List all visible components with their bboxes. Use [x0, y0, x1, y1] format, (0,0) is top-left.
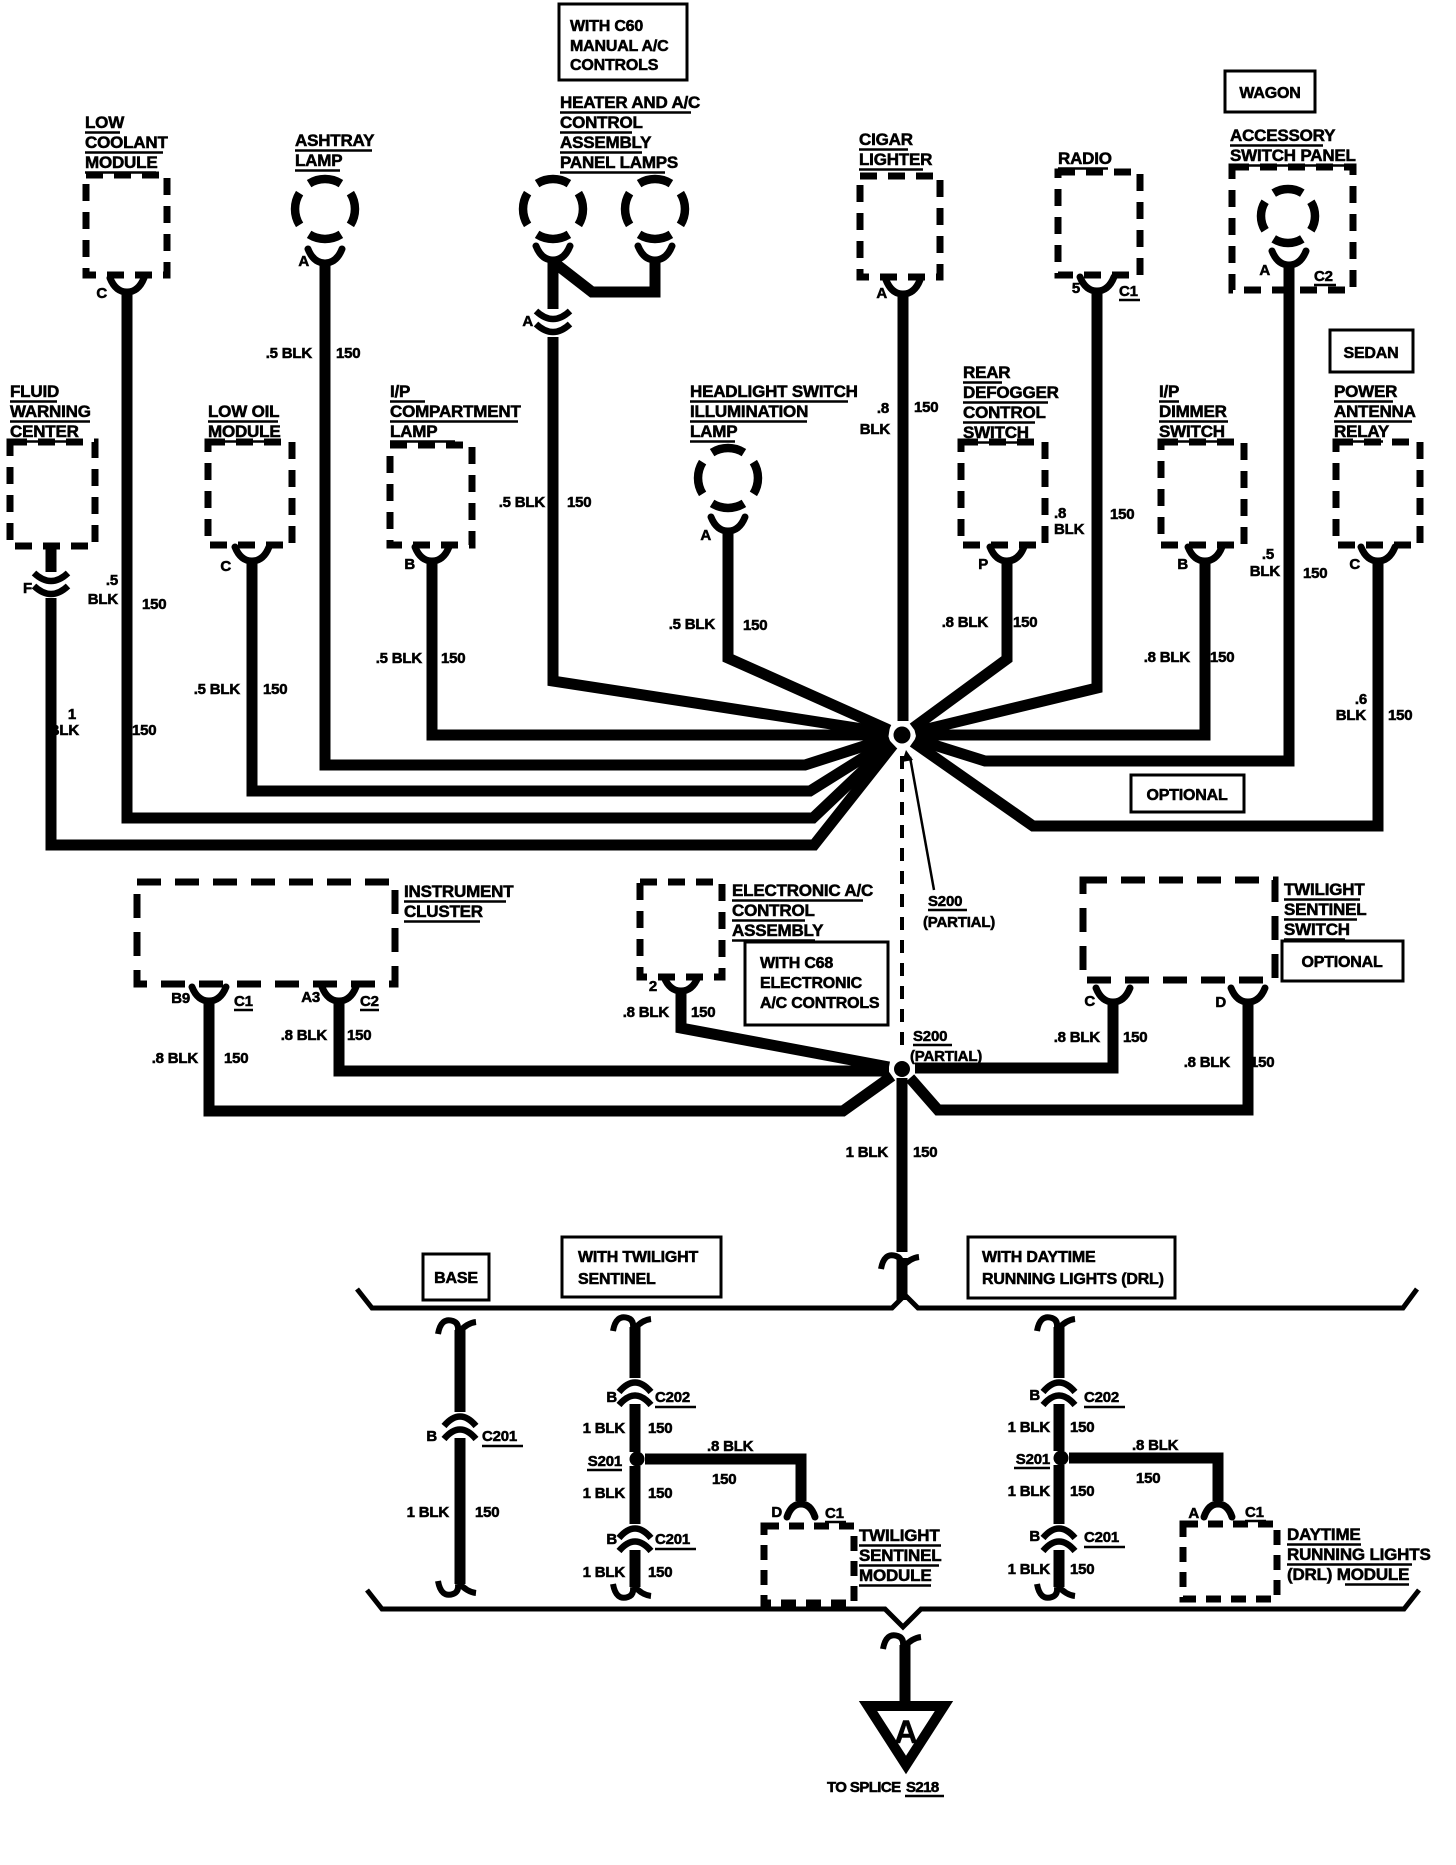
svg-text:150: 150 [1013, 614, 1037, 631]
component HEADLIGHT SWITCH ILLUMINATION LAMP [690, 382, 858, 508]
svg-text:RUNNING LIGHTS: RUNNING LIGHTS [1287, 1545, 1431, 1564]
component ASHTRAY LAMP [295, 131, 375, 239]
svg-text:CONTROLS: CONTROLS [570, 57, 659, 74]
svg-text:LAMP: LAMP [390, 422, 437, 441]
component INSTRUMENT CLUSTER [137, 882, 514, 984]
svg-text:RELAY: RELAY [1334, 422, 1390, 441]
svg-text:150: 150 [142, 596, 166, 613]
svg-text:CONTROL: CONTROL [560, 113, 643, 132]
label .5 BLK 150 (ashtray wire) [266, 345, 361, 362]
svg-text:A/C CONTROLS: A/C CONTROLS [760, 995, 880, 1012]
label .8 BLK 150 (dimmer wire) [1144, 649, 1235, 666]
svg-text:150: 150 [691, 1004, 715, 1021]
label .5 BLK 150 (headlight sw illum wire) [669, 616, 768, 634]
svg-text:CENTER: CENTER [10, 422, 79, 441]
component CIGAR LIGHTER [859, 130, 940, 277]
label .5 BLK 150 (accessory wire) [1250, 546, 1328, 582]
pin A of ASHTRAY LAMP [298, 249, 342, 270]
label .8 BLK 150 (sentinel D wire) [1184, 1054, 1275, 1071]
svg-text:HEADLIGHT SWITCH: HEADLIGHT SWITCH [690, 382, 858, 401]
wire BASE branch (1 BLK 150) [438, 1320, 476, 1595]
svg-text:DIMMER: DIMMER [1159, 402, 1227, 421]
svg-text:BASE: BASE [434, 1270, 478, 1287]
component FLUID WARNING CENTER [10, 382, 95, 546]
dashed wire S200 to S200 (partial splice) [900, 756, 904, 1053]
label .8 BLK 150 (electronic a/c wire) [623, 1004, 716, 1021]
label 1 BLK 150 [583, 1485, 673, 1502]
wire ELECTRONIC A/C to S200 lower (.8 BLK 150) [681, 990, 889, 1067]
wire S201 to DRL MODULE (.8 BLK 150) [1069, 1458, 1218, 1501]
wire POWER ANTENNA RELAY to S200 (.6 BLK 150) [913, 560, 1378, 826]
svg-text:ELECTRONIC A/C: ELECTRONIC A/C [732, 881, 873, 900]
splice S201 (sentinel branch) [587, 1452, 645, 1471]
svg-text:REAR: REAR [963, 363, 1010, 382]
component I/P DIMMER SWITCH [1159, 382, 1244, 545]
in-line connector C201 (sentinel branch) pin B [606, 1529, 696, 1552]
note box SEDAN [1330, 330, 1413, 372]
component POWER ANTENNA RELAY (SEDAN) [1334, 382, 1420, 545]
in-line connector F (fluid warning) [23, 573, 68, 597]
svg-text:DEFOGGER: DEFOGGER [963, 383, 1059, 402]
svg-text:150: 150 [263, 681, 287, 698]
label .8 BLK 150 (A3 wire) [281, 1027, 372, 1044]
svg-text:C201: C201 [655, 1531, 690, 1548]
label .8 BLK 150 (radio wire) [1054, 505, 1134, 538]
note box WAGON [1225, 71, 1315, 112]
pin A of CIGAR LIGHTER [876, 280, 920, 302]
svg-text:CLUSTER: CLUSTER [404, 902, 483, 921]
label .5 BLK 150 (heater lamps wire) [499, 494, 592, 511]
wire A3 to S200 lower (.8 BLK 150) [339, 1000, 889, 1071]
svg-text:1 BLK: 1 BLK [1008, 1561, 1051, 1578]
pin C of LOW COOLANT MODULE [96, 278, 144, 302]
svg-text:.5 BLK: .5 BLK [376, 650, 423, 667]
svg-text:S201: S201 [1016, 1451, 1050, 1468]
component ELECTRONIC A/C CONTROL ASSEMBLY [640, 881, 873, 977]
svg-text:150: 150 [1070, 1419, 1094, 1436]
svg-text:LOW OIL: LOW OIL [208, 402, 279, 421]
svg-text:I/P: I/P [390, 382, 410, 401]
svg-text:DAYTIME: DAYTIME [1287, 1525, 1361, 1544]
component REAR DEFOGGER CONTROL SWITCH [961, 363, 1059, 545]
svg-text:COOLANT: COOLANT [85, 133, 168, 152]
svg-text:150: 150 [1210, 649, 1234, 666]
svg-text:2: 2 [649, 978, 657, 995]
pin 5 / connector C1 of RADIO [1072, 277, 1140, 300]
svg-text:150: 150 [1250, 1054, 1274, 1071]
wire WITH TWILIGHT SENTINEL branch (1 BLK 150) [613, 1317, 651, 1598]
wire I/P DIMMER SWITCH to S200 (.8 BLK 150) [916, 560, 1205, 735]
label .5 BLK 150 (low oil wire) [194, 681, 288, 698]
ground symbol A / TO SPLICE S218 [868, 1706, 944, 1765]
wire CIGAR LIGHTER to S200 (.8 BLK 150) [898, 293, 909, 721]
label S200 (PARTIAL) lower [910, 1028, 982, 1065]
svg-text:150: 150 [347, 1027, 371, 1044]
bracket (top) [357, 1289, 1417, 1308]
svg-text:OPTIONAL: OPTIONAL [1301, 954, 1382, 971]
svg-text:SWITCH: SWITCH [1159, 422, 1225, 441]
bracket (bottom) [367, 1590, 1419, 1627]
wire heater panel lamps to S200 (.5 BLK 150) [553, 337, 889, 733]
svg-text:B: B [404, 556, 415, 573]
svg-text:1 BLK: 1 BLK [583, 1420, 626, 1437]
pin B of I/P DIMMER SWITCH [1177, 547, 1222, 573]
svg-text:B: B [426, 1428, 437, 1445]
svg-text:150: 150 [441, 650, 465, 667]
svg-text:C: C [220, 558, 231, 575]
svg-text:WARNING: WARNING [10, 402, 91, 421]
svg-text:OPTIONAL: OPTIONAL [1146, 787, 1227, 804]
pin D of TWILIGHT SENTINEL SWITCH [1215, 988, 1265, 1011]
svg-text:I/P: I/P [1159, 382, 1179, 401]
svg-text:.8 BLK: .8 BLK [1184, 1054, 1231, 1071]
svg-text:150: 150 [1388, 707, 1412, 724]
svg-text:WITH TWILIGHT: WITH TWILIGHT [578, 1249, 698, 1266]
svg-text:A: A [700, 527, 711, 544]
wire HEADLIGHT SWITCH ILLUMINATION LAMP to S200 (.5 BLK 150) [728, 530, 889, 730]
svg-text:SENTINEL: SENTINEL [859, 1546, 941, 1565]
label .8 BLK 150 (drl module wire) [1132, 1437, 1179, 1487]
label .8 BLK 150 (sentinel module wire) [707, 1438, 754, 1488]
svg-text:SWITCH: SWITCH [1284, 920, 1350, 939]
splice S200 lower node [894, 1061, 910, 1077]
wire LOW OIL MODULE to S200 (.5 BLK 150) [252, 560, 890, 791]
label 1 BLK 150 (base branch) [407, 1504, 500, 1521]
svg-text:WITH C68: WITH C68 [760, 955, 833, 972]
svg-text:RADIO: RADIO [1058, 149, 1112, 168]
svg-text:WAGON: WAGON [1239, 85, 1300, 102]
label TO SPLICE S218 [827, 1779, 944, 1796]
svg-text:150: 150 [132, 722, 156, 739]
wire REAR DEFOGGER CONTROL SWITCH to S200 (.8 BLK 150) [913, 560, 1007, 728]
svg-text:.5 BLK: .5 BLK [266, 345, 313, 362]
svg-text:C: C [1349, 556, 1360, 573]
svg-text:C: C [1084, 993, 1095, 1010]
pin C of POWER ANTENNA RELAY [1349, 547, 1395, 573]
in-line connector C202 (drl branch) pin B [1029, 1383, 1125, 1408]
component RADIO [1058, 149, 1140, 275]
svg-text:C1: C1 [825, 1505, 844, 1522]
svg-text:MODULE: MODULE [859, 1566, 931, 1585]
pin C of TWILIGHT SENTINEL SWITCH [1084, 988, 1130, 1010]
svg-text:INSTRUMENT: INSTRUMENT [404, 882, 514, 901]
wire FLUID WARNING CENTER to S200 (1 BLK 150) [51, 598, 893, 845]
svg-text:A: A [876, 285, 887, 302]
svg-text:C1: C1 [234, 993, 253, 1010]
svg-text:1 BLK: 1 BLK [1008, 1483, 1051, 1500]
svg-text:COMPARTMENT: COMPARTMENT [390, 402, 521, 421]
label 1 BLK 150 [583, 1420, 673, 1437]
wire S200 lower down to bracket (1 BLK 150) [881, 1078, 919, 1300]
note box WITH C68 ELECTRONIC A/C CONTROLS [745, 942, 888, 1025]
note box OPTIONAL (upper) [1131, 775, 1244, 812]
svg-text:BLK: BLK [49, 722, 80, 739]
svg-text:1 BLK: 1 BLK [846, 1144, 889, 1161]
svg-text:150: 150 [712, 1471, 736, 1488]
svg-text:B: B [606, 1389, 617, 1406]
component DAYTIME RUNNING LIGHTS (DRL) MODULE [1183, 1504, 1431, 1599]
svg-text:1 BLK: 1 BLK [583, 1564, 626, 1581]
svg-text:WITH DAYTIME: WITH DAYTIME [982, 1249, 1096, 1266]
svg-text:150: 150 [1136, 1470, 1160, 1487]
label .8 BLK 150 (defogger wire) [942, 614, 1038, 631]
svg-text:150: 150 [567, 494, 591, 511]
label 1 BLK 150 [1008, 1419, 1095, 1436]
pin 2 of ELECTRONIC A/C CONTROL ASSEMBLY [649, 977, 698, 995]
svg-text:150: 150 [224, 1050, 248, 1067]
in-line connector C202 (sentinel branch) pin B [606, 1383, 696, 1408]
svg-text:A3: A3 [301, 989, 320, 1006]
svg-text:C2: C2 [360, 993, 379, 1010]
svg-text:.5: .5 [1262, 546, 1274, 563]
svg-text:BLK: BLK [88, 591, 119, 608]
svg-text:150: 150 [475, 1504, 499, 1521]
svg-text:.8 BLK: .8 BLK [942, 614, 989, 631]
svg-text:B: B [1029, 1528, 1040, 1545]
svg-text:ASHTRAY: ASHTRAY [295, 131, 375, 150]
svg-text:CONTROL: CONTROL [963, 403, 1046, 422]
svg-text:150: 150 [1123, 1029, 1147, 1046]
in-line connector A (heater panel lamps) [522, 311, 570, 332]
svg-text:(DRL) MODULE: (DRL) MODULE [1287, 1565, 1409, 1584]
label .6 BLK 150 (antenna wire) [1336, 691, 1413, 724]
pin B of I/P COMPARTMENT LAMP [404, 547, 449, 573]
svg-text:150: 150 [336, 345, 360, 362]
svg-text:A: A [1188, 1505, 1199, 1522]
svg-text:.8 BLK: .8 BLK [152, 1050, 199, 1067]
pin B9 / connector C1 of INSTRUMENT CLUSTER [171, 987, 253, 1010]
wire ASHTRAY LAMP to S200 (.5 BLK 150) [325, 262, 889, 765]
component ACCESSORY SWITCH PANEL (WAGON) [1230, 126, 1356, 290]
label 1 BLK 150 (main ground wire) [846, 1144, 938, 1161]
svg-text:HEATER AND A/C: HEATER AND A/C [560, 93, 700, 112]
svg-text:MODULE: MODULE [85, 153, 157, 172]
note box OPTIONAL (lower) [1282, 941, 1403, 981]
svg-text:ASSEMBLY: ASSEMBLY [732, 921, 824, 940]
svg-text:150: 150 [648, 1564, 672, 1581]
svg-text:B: B [606, 1531, 617, 1548]
wire S201 to TWILIGHT SENTINEL MODULE (.8 BLK 150) [645, 1459, 801, 1501]
wire stub from FLUID WARNING CENTER [46, 546, 57, 572]
svg-text:1 BLK: 1 BLK [1008, 1419, 1051, 1436]
svg-text:TO SPLICE: TO SPLICE [827, 1779, 901, 1796]
wire left panel lamp down to connector A [548, 259, 559, 309]
note box WITH TWILIGHT SENTINEL [562, 1237, 721, 1297]
svg-text:.8 BLK: .8 BLK [707, 1438, 754, 1455]
svg-text:.8 BLK: .8 BLK [623, 1004, 670, 1021]
svg-text:.8 BLK: .8 BLK [1132, 1437, 1179, 1454]
svg-text:ELECTRONIC: ELECTRONIC [760, 975, 863, 992]
pin A / connector C2 of ACCESSORY SWITCH PANEL [1259, 251, 1336, 285]
label S200 (PARTIAL) upper with arrow [902, 750, 995, 931]
component HEATER AND A/C CONTROL ASSEMBLY PANEL LAMPS [523, 93, 700, 239]
svg-text:SENTINEL: SENTINEL [578, 1271, 656, 1288]
svg-text:.8: .8 [1054, 505, 1066, 522]
svg-text:.6: .6 [1355, 691, 1367, 708]
svg-text:D: D [1215, 994, 1226, 1011]
in-line connector C201 (base) [426, 1417, 523, 1447]
svg-text:BLK: BLK [860, 421, 891, 438]
svg-text:BLK: BLK [1250, 563, 1281, 580]
label 1 BLK 150 [583, 1564, 673, 1581]
component TWILIGHT SENTINEL MODULE [764, 1504, 941, 1603]
wire RADIO to S200 (.8 BLK 150) [915, 290, 1097, 732]
svg-text:BLK: BLK [1336, 707, 1367, 724]
svg-text:150: 150 [1303, 565, 1327, 582]
lamp sockets [536, 246, 672, 260]
wire pin C to S200 lower (.8 BLK 150) [915, 1001, 1113, 1068]
label .5 BLK 150 (low coolant wire) [88, 572, 167, 613]
svg-text:B: B [1177, 556, 1188, 573]
component LOW COOLANT MODULE [85, 113, 168, 275]
wire right panel lamp to junction [556, 259, 655, 292]
svg-text:MANUAL A/C: MANUAL A/C [570, 38, 669, 55]
svg-text:FLUID: FLUID [10, 382, 59, 401]
svg-text:TWILIGHT: TWILIGHT [859, 1526, 940, 1545]
svg-text:.8 BLK: .8 BLK [281, 1027, 328, 1044]
label 1 BLK 150 [1008, 1483, 1095, 1500]
svg-text:S201: S201 [588, 1453, 622, 1470]
svg-text:1: 1 [68, 706, 76, 723]
svg-text:150: 150 [648, 1485, 672, 1502]
svg-text:(PARTIAL): (PARTIAL) [923, 914, 995, 931]
pin C of LOW OIL MODULE [220, 547, 269, 575]
splice S201 (drl branch) [1014, 1451, 1069, 1469]
svg-text:S200: S200 [913, 1028, 947, 1045]
pin P of REAR DEFOGGER CONTROL SWITCH [978, 547, 1024, 573]
svg-text:SENTINEL: SENTINEL [1284, 900, 1366, 919]
svg-text:ACCESSORY: ACCESSORY [1230, 126, 1336, 145]
svg-text:150: 150 [1070, 1561, 1094, 1578]
svg-text:1 BLK: 1 BLK [583, 1485, 626, 1502]
svg-text:S218: S218 [906, 1779, 939, 1796]
note box WITH DAYTIME RUNNING LIGHTS (DRL) [968, 1237, 1175, 1298]
svg-text:ASSEMBLY: ASSEMBLY [560, 133, 652, 152]
svg-text:150: 150 [648, 1420, 672, 1437]
svg-text:LAMP: LAMP [690, 422, 737, 441]
wire I/P COMPARTMENT LAMP to S200 (.5 BLK 150) [432, 560, 888, 735]
wire pin D to S200 lower (.8 BLK 150) [910, 1001, 1248, 1110]
svg-text:C: C [96, 285, 107, 302]
svg-text:C2: C2 [1314, 268, 1333, 285]
svg-text:C201: C201 [1084, 1529, 1119, 1546]
svg-text:.5: .5 [106, 572, 118, 589]
svg-text:BLK: BLK [1054, 521, 1085, 538]
svg-text:C1: C1 [1119, 283, 1138, 300]
svg-text:ANTENNA: ANTENNA [1334, 402, 1416, 421]
svg-text:A: A [522, 313, 533, 330]
in-line connector C201 (drl branch) pin B [1029, 1528, 1125, 1551]
label 1 BLK 150 [1008, 1561, 1095, 1578]
svg-text:.8 BLK: .8 BLK [1144, 649, 1191, 666]
svg-text:P: P [978, 556, 988, 573]
label .5 BLK 150 (i/p compartment wire) [376, 650, 466, 667]
svg-text:C1: C1 [1245, 1504, 1264, 1521]
svg-text:S200: S200 [928, 893, 962, 910]
svg-text:SEDAN: SEDAN [1343, 345, 1398, 362]
svg-text:TWILIGHT: TWILIGHT [1284, 880, 1365, 899]
svg-text:CONTROL: CONTROL [732, 901, 815, 920]
svg-text:.5 BLK: .5 BLK [499, 494, 546, 511]
svg-text:CIGAR: CIGAR [859, 130, 913, 149]
svg-text:C201: C201 [482, 1428, 517, 1445]
svg-text:C202: C202 [1084, 1389, 1119, 1406]
note box BASE [423, 1254, 489, 1300]
svg-text:LAMP: LAMP [295, 151, 342, 170]
svg-text:.8: .8 [877, 400, 889, 417]
svg-text:LIGHTER: LIGHTER [859, 150, 932, 169]
svg-text:MODULE: MODULE [208, 422, 280, 441]
svg-text:F: F [23, 580, 32, 597]
svg-text:A: A [1259, 262, 1270, 279]
svg-text:150: 150 [1110, 506, 1134, 523]
svg-text:1 BLK: 1 BLK [407, 1504, 450, 1521]
svg-text:PANEL LAMPS: PANEL LAMPS [560, 153, 678, 172]
label 1 BLK 150 (fluid warning wire) [49, 706, 157, 739]
svg-text:A: A [895, 1714, 918, 1750]
wire ACCESSORY SWITCH PANEL to S200 (.5 BLK 150) [915, 264, 1289, 761]
wire B9 to S200 lower (.8 BLK 150) [209, 1000, 892, 1111]
svg-text:WITH C60: WITH C60 [570, 18, 643, 35]
svg-text:ILLUMINATION: ILLUMINATION [690, 402, 808, 421]
svg-text:B: B [1029, 1387, 1040, 1404]
svg-text:D: D [771, 1504, 782, 1521]
component I/P COMPARTMENT LAMP [390, 382, 521, 545]
svg-text:150: 150 [914, 399, 938, 416]
pin A3 / connector C2 of INSTRUMENT CLUSTER [301, 987, 379, 1010]
svg-text:SWITCH PANEL: SWITCH PANEL [1230, 146, 1356, 165]
component TWILIGHT SENTINEL SWITCH [1083, 880, 1366, 980]
svg-text:150: 150 [743, 617, 767, 634]
svg-text:150: 150 [1070, 1483, 1094, 1500]
svg-text:.5 BLK: .5 BLK [194, 681, 241, 698]
wire WITH DRL branch (1 BLK 150) [1037, 1317, 1075, 1598]
svg-text:POWER: POWER [1334, 382, 1397, 401]
wire bracket to ground G (1 BLK) [883, 1635, 921, 1710]
wire LOW COOLANT MODULE to S200 (.5 BLK 150) [127, 291, 892, 818]
label .8 BLK 150 (cigar wire) [860, 399, 939, 438]
svg-text:B9: B9 [171, 990, 190, 1007]
label .8 BLK 150 (B9 wire) [152, 1050, 249, 1067]
splice S200 node [894, 727, 911, 744]
svg-text:C202: C202 [655, 1389, 690, 1406]
component LOW OIL MODULE [208, 402, 292, 545]
svg-text:(PARTIAL): (PARTIAL) [910, 1048, 982, 1065]
svg-text:RUNNING LIGHTS (DRL): RUNNING LIGHTS (DRL) [982, 1271, 1164, 1288]
pin A of HEADLIGHT SWITCH ILLUMINATION LAMP [700, 517, 745, 544]
svg-text:.5 BLK: .5 BLK [669, 616, 716, 633]
svg-text:LOW: LOW [85, 113, 125, 132]
label .8 BLK 150 (sentinel C wire) [1054, 1029, 1148, 1046]
svg-text:150: 150 [913, 1144, 937, 1161]
svg-text:.8 BLK: .8 BLK [1054, 1029, 1101, 1046]
note box WITH C60 MANUAL A/C CONTROLS [559, 4, 687, 80]
